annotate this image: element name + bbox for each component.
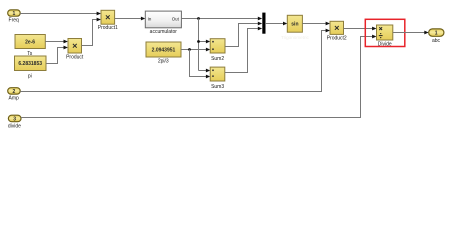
- svg-text:Product: Product: [66, 54, 84, 60]
- wire Sum2 to Mux input2: [225, 22, 262, 47]
- svg-text:1: 1: [13, 11, 16, 17]
- product block Product1: [98, 10, 118, 31]
- inport 2 Amp: [8, 88, 21, 102]
- mux Mux: [262, 13, 265, 34]
- svg-text:Freq: Freq: [9, 18, 20, 24]
- product block Product: [66, 39, 84, 61]
- wire Divide to abc: [393, 31, 429, 35]
- inport 3 divide: [8, 115, 21, 129]
- wire Freq to Product1: [20, 12, 101, 16]
- svg-text:sin: sin: [291, 21, 298, 27]
- svg-text:2pi/3: 2pi/3: [158, 59, 169, 65]
- svg-text:Amp: Amp: [9, 96, 20, 102]
- highlight red box: [365, 19, 405, 46]
- svg-text:Sum2: Sum2: [211, 56, 224, 62]
- svg-text:2: 2: [13, 89, 16, 95]
- svg-text:Product2: Product2: [327, 35, 347, 41]
- svg-text:Sum3: Sum3: [211, 84, 224, 90]
- sum block Sum2: [210, 39, 225, 62]
- constant block 2pi/3 2.0943951: [146, 42, 181, 65]
- wire Ts to Product: [45, 40, 68, 44]
- svg-text:In: In: [148, 16, 152, 21]
- wire pi to Product: [46, 46, 68, 64]
- svg-text:pi: pi: [28, 74, 32, 80]
- trigonometric function block sin: [287, 15, 302, 32]
- product block Product2: [327, 21, 347, 41]
- svg-text:accumulator: accumulator: [150, 29, 178, 35]
- wire divide to Divide: [21, 35, 377, 118]
- junction node theta: [197, 17, 200, 20]
- svg-text:2e-6: 2e-6: [25, 39, 35, 45]
- svg-text:abc: abc: [432, 38, 441, 44]
- wire accumulator to Mux input1: [181, 17, 262, 21]
- outport 1 abc: [429, 29, 444, 44]
- wire Amp to Product2: [20, 29, 330, 92]
- wire Sum3 to Mux input3: [225, 27, 262, 73]
- svg-text:6.2831853: 6.2831853: [18, 61, 42, 67]
- svg-text:Divide: Divide: [378, 41, 392, 47]
- svg-text:Trigonometric: Trigonometric: [281, 35, 310, 40]
- constant block pi 6.2831853: [15, 56, 47, 80]
- constant block Ts 2e-6: [15, 35, 45, 58]
- svg-text:3: 3: [13, 116, 16, 122]
- svg-text:1: 1: [435, 31, 438, 37]
- divide block Divide: [377, 25, 393, 47]
- wire Mux to sin: [266, 22, 287, 26]
- wire sin to Product2: [302, 22, 330, 26]
- svg-text:Product1: Product1: [98, 25, 118, 31]
- wire 2pi/3 to Sum2 and branch to Sum3: [181, 48, 210, 79]
- wire Product2 to Divide: [344, 27, 377, 31]
- subsystem accumulator: [145, 11, 181, 35]
- wire Product to Product1: [82, 18, 102, 46]
- svg-text:Out: Out: [172, 16, 180, 21]
- sum block Sum3: [210, 67, 225, 90]
- svg-text:2.0943951: 2.0943951: [152, 48, 176, 54]
- wire Product1 to accumulator: [115, 17, 146, 21]
- inport 1 Freq: [8, 10, 21, 24]
- wire theta branch down to Sum2 and Sum3: [197, 19, 210, 73]
- svg-text:divide: divide: [8, 123, 21, 129]
